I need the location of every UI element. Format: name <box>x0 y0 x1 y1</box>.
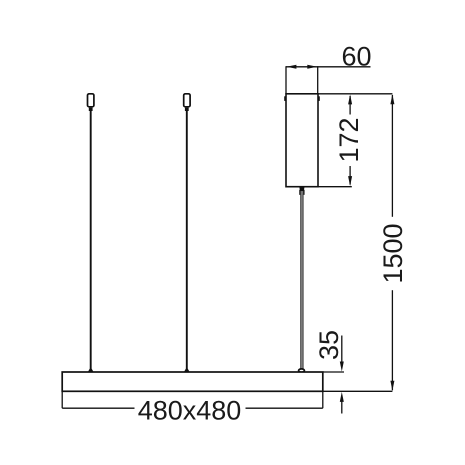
power cord foot connector <box>299 369 305 372</box>
svg-text:480x480: 480x480 <box>138 395 242 425</box>
cable gripper cap of S1 <box>88 94 94 107</box>
dimension 480x480 line right segment <box>246 407 323 409</box>
dimension 60 line <box>286 66 371 68</box>
dimension 35 extension line top <box>323 371 344 373</box>
dimension 1500 line lower segment <box>391 290 393 390</box>
canopy driver box U1 <box>286 94 318 187</box>
dimension 172 line lower segment <box>349 166 351 185</box>
ceiling reference line <box>286 93 392 95</box>
dimension 60 extension line left <box>285 66 287 94</box>
dimension 480x480 extension line right <box>322 391 324 408</box>
power cord strain relief <box>299 188 304 191</box>
dimension 60 left arrow <box>286 65 296 69</box>
svg-text:172: 172 <box>334 117 364 162</box>
dimension 172 line upper segment <box>349 96 351 115</box>
dimension 1500 line upper segment <box>391 95 393 217</box>
suspension cable S1 <box>90 109 92 372</box>
dimension 1500 down arrow <box>390 381 394 391</box>
luminaire bar body <box>62 372 323 391</box>
cable gripper cap of S2 <box>184 94 190 107</box>
svg-text:60: 60 <box>341 41 371 71</box>
svg-text:1500: 1500 <box>378 223 408 283</box>
dimension 35 down arrow <box>340 362 344 372</box>
neck of S2 cap <box>185 108 189 111</box>
dimension 480x480 line left segment <box>62 407 134 409</box>
canopy right mounting tab <box>318 96 320 101</box>
dimension 35 line lower segment <box>341 401 343 414</box>
foot of S1 on bar <box>88 369 94 373</box>
svg-text:35: 35 <box>314 330 344 360</box>
dimension 172 extension line at box bottom <box>318 186 352 188</box>
dimension 35 up arrow <box>340 392 344 402</box>
suspension cable S2 <box>186 109 188 372</box>
dimension 35 line upper segment <box>341 336 343 364</box>
dimension 35 extension line bottom (to 1500 dim) <box>323 390 392 392</box>
dimension 480x480 extension line left <box>61 391 63 408</box>
neck of S1 cap <box>89 108 93 111</box>
canopy left mounting tab <box>284 96 286 101</box>
dimension 1500 up arrow <box>390 94 394 104</box>
dimension 172 down arrow <box>348 176 352 186</box>
dimension 60 extension line right <box>317 66 319 94</box>
dimension 172 up arrow <box>348 94 352 104</box>
power cord <box>300 194 303 369</box>
foot of S2 on bar <box>184 369 190 373</box>
dimension 60 right arrow <box>307 65 317 69</box>
